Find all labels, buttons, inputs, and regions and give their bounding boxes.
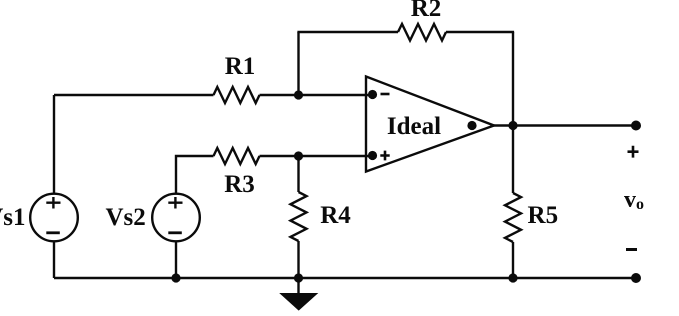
Vs2 minus sign [168,231,182,234]
op-amp U1 triangle [366,77,494,172]
node dot R1 feedback junction [294,90,303,99]
wire R4 top lead [297,156,299,192]
op-amp minus sign [381,93,390,96]
svg-text:Vs2: Vs2 [106,204,146,231]
wire R4 bottom lead [297,241,299,278]
node dot output terminal [631,121,641,131]
svg-text:Ideal: Ideal [387,113,441,140]
label output plus [628,146,639,158]
resistor R1 zigzag [214,87,260,103]
wire Vs2 bottom lead [175,242,177,278]
Vs1 minus sign [46,231,60,234]
node dot Vs2 bottom junction [171,273,180,282]
ground stem [297,278,299,294]
wire top rail left segment [297,31,398,33]
Vs2 plus sign [168,197,182,209]
wire feedback riser (node to top rail) [297,32,299,95]
resistor R3 zigzag [214,148,260,164]
svg-text:R1: R1 [225,53,256,80]
node dot bottom terminal [631,273,641,283]
resistor R2 zigzag [398,24,446,41]
wire output row [492,124,636,126]
wire R5 top lead [512,126,514,194]
op-amp plus sign [380,151,389,161]
svg-text:Vs1: Vs1 [0,204,26,231]
wire right feedback drop (top rail to output node) [512,32,514,126]
svg-text:vo: vo [624,187,644,213]
node dot output junction [508,121,517,130]
resistor R5 zigzag [505,193,521,242]
wire R1 row right segment to inverting input [260,94,373,96]
wire R3 row left bend [176,156,214,194]
wire top rail right segment [446,31,514,33]
wire R3 row right segment to non-inverting input [260,155,373,157]
svg-text:R3: R3 [224,171,255,198]
Vs1 plus sign [46,197,60,209]
node dot R3/R4 junction [294,151,303,160]
label output minus [626,248,637,251]
op-amp inverting input dot [368,90,377,99]
resistor R4 zigzag [291,192,307,241]
voltage source Vs1 circle [30,194,78,242]
svg-text:R5: R5 [528,202,559,229]
wire bottom rail [54,277,636,279]
svg-text:R4: R4 [320,202,351,229]
voltage source Vs2 circle [152,194,200,242]
node dot ground junction [294,273,303,282]
wire R5 bottom lead [512,242,514,278]
op-amp non-inverting input dot [368,151,377,160]
op-amp output dot [467,121,476,130]
svg-text:R2: R2 [411,0,442,22]
wire left branch vertical (Vs1 column from R1 row to bottom rail) [53,95,55,278]
wire R1 row left segment [54,94,214,96]
ground triangle [281,294,318,311]
node dot R5 bottom junction [508,273,517,282]
